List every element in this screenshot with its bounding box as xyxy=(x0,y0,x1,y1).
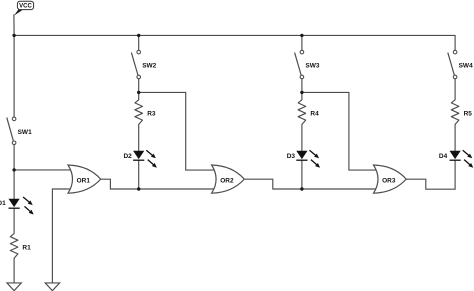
wire D3 cathode to bus node E xyxy=(301,160,303,189)
wire OR2 output to OR3 input 2 xyxy=(244,179,379,189)
svg-text:D1: D1 xyxy=(0,200,6,207)
svg-text:R3: R3 xyxy=(147,110,156,117)
resistor R3 xyxy=(135,100,156,125)
wire SW3 to node D xyxy=(301,79,303,93)
wire OR1 output to OR2 input 2 xyxy=(101,179,217,189)
resistor R4 xyxy=(298,100,319,125)
resistor R5 xyxy=(451,100,472,125)
LED D2 xyxy=(123,150,156,168)
wire VCC stem xyxy=(13,15,15,36)
svg-text:D3: D3 xyxy=(287,153,296,160)
svg-text:SW2: SW2 xyxy=(142,63,156,70)
OR gate OR1 xyxy=(68,165,101,193)
node junction at bus col3 xyxy=(300,34,303,37)
node junction at VCC bus col1 xyxy=(12,34,15,37)
switch SW1 xyxy=(7,117,32,145)
LED D4 xyxy=(439,150,473,168)
OR gate OR2 xyxy=(212,165,245,193)
svg-text:VCC: VCC xyxy=(19,4,32,10)
node C junction col2 bottom bus xyxy=(137,187,140,190)
svg-text:OR1: OR1 xyxy=(77,177,91,184)
power flag VCC xyxy=(14,1,34,15)
wire R5 to D4 anode xyxy=(454,124,456,150)
node E junction col3 bottom bus xyxy=(300,187,303,190)
wire D4 cathode down xyxy=(454,160,456,189)
OR gate OR3 xyxy=(374,165,407,193)
LED D1 xyxy=(0,197,34,215)
ground symbol under OR1 input 2 xyxy=(45,283,59,291)
wire R4 to D3 anode xyxy=(301,124,303,150)
wire R3 to D2 anode xyxy=(138,124,140,150)
svg-text:OR3: OR3 xyxy=(382,177,396,184)
resistor R1 xyxy=(10,234,31,259)
wire SW2 to node B xyxy=(138,79,140,93)
svg-text:SW4: SW4 xyxy=(459,63,473,70)
svg-text:D2: D2 xyxy=(123,153,132,160)
LED D3 xyxy=(287,150,320,168)
node D junction col3 xyxy=(300,91,303,94)
wire col1 bus to SW1 xyxy=(13,35,15,117)
wire node B to R3 xyxy=(138,92,140,99)
wire node A to D1 anode xyxy=(13,170,15,199)
svg-text:D4: D4 xyxy=(439,153,448,160)
switch SW2 xyxy=(131,50,156,78)
wire OR3 output to D4 branch xyxy=(406,179,455,189)
svg-text:SW3: SW3 xyxy=(305,63,319,70)
wire node D to OR3 input 1 xyxy=(302,92,379,170)
node B junction col2 xyxy=(137,91,140,94)
ground symbol under R1 xyxy=(7,283,21,291)
svg-text:SW1: SW1 xyxy=(18,129,32,136)
switch SW4 xyxy=(448,50,473,78)
switch SW3 xyxy=(295,50,320,78)
wire SW4 to R5 xyxy=(454,79,456,100)
wire node D to R4 xyxy=(301,92,303,99)
wire OR1 input 2 to ground xyxy=(52,189,74,283)
svg-text:R4: R4 xyxy=(310,110,319,117)
node junction at bus col2 xyxy=(137,34,140,37)
wire D2 cathode to bus node C xyxy=(138,160,140,189)
wire top power bus xyxy=(14,35,455,50)
wire node B to OR2 input 1 xyxy=(139,92,217,170)
svg-text:OR2: OR2 xyxy=(220,177,234,184)
wire node A to OR1 input 1 xyxy=(14,169,74,171)
svg-text:R5: R5 xyxy=(464,110,473,117)
svg-text:R1: R1 xyxy=(22,244,31,251)
node A junction col1 xyxy=(12,168,15,171)
wire col3 bus to SW3 xyxy=(301,35,303,50)
wire D1 cathode to R1 xyxy=(13,208,15,233)
wire col2 bus to SW2 xyxy=(138,35,140,50)
wire R1 to ground xyxy=(13,258,15,283)
wire SW1 to node A xyxy=(13,145,15,170)
